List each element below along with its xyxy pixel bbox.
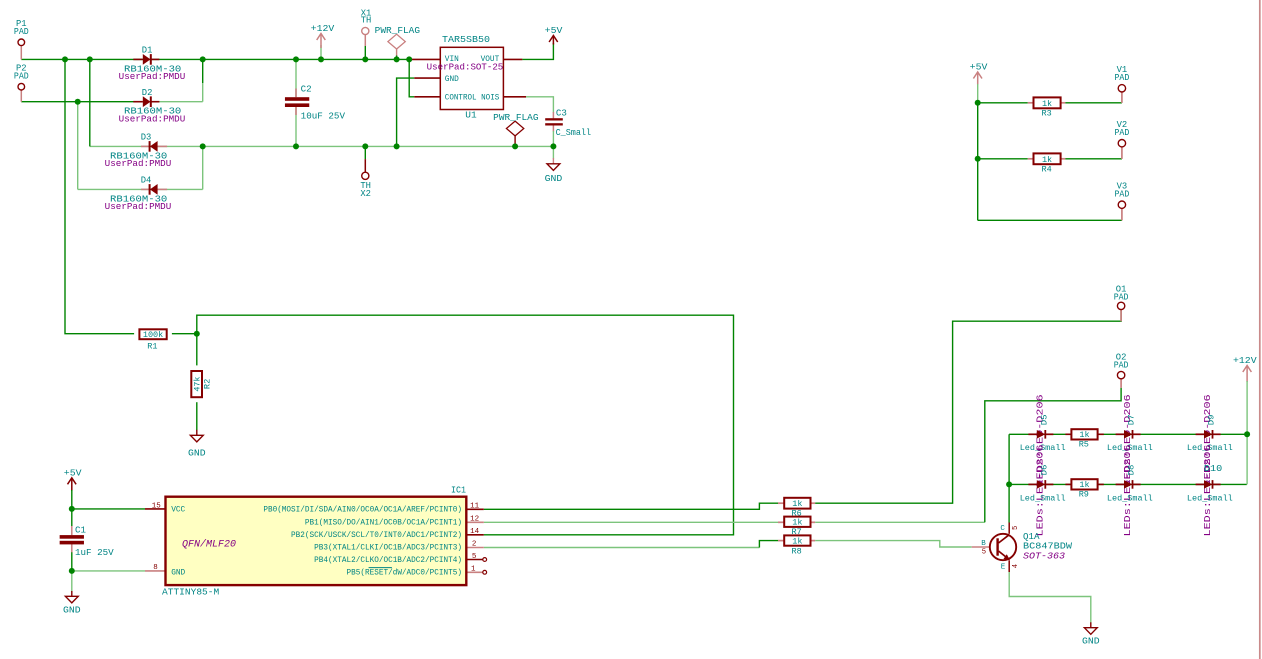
svg-text:14: 14 <box>470 528 480 536</box>
resistor R8 1k <box>784 535 810 556</box>
wire R1 junction up/over to PB2 pin 14 <box>197 315 734 535</box>
svg-text:PB2(SCK/USCK/SCL/T0/INT0/ADC1/: PB2(SCK/USCK/SCL/T0/INT0/ADC1/PCINT2) <box>291 532 462 540</box>
junction G1 <box>1006 481 1012 487</box>
diode D2 RB160M-30 <box>119 88 186 125</box>
capacitor C3 C_Small <box>545 109 591 138</box>
svg-text:D5: D5 <box>1039 415 1049 426</box>
svg-text:Led_Small: Led_Small <box>1020 493 1066 503</box>
wire VCC junction to IC pin 15 <box>72 508 145 510</box>
svg-text:R9: R9 <box>1079 489 1089 499</box>
wire U1 GND pin to GND rail <box>397 78 415 146</box>
svg-text:PAD: PAD <box>1115 128 1130 138</box>
diode D1 RB160M-30 <box>119 46 186 83</box>
power +5V at IC <box>71 478 73 491</box>
svg-text:PWR_FLAG: PWR_FLAG <box>493 113 538 123</box>
pad V1 (V1) <box>1115 65 1130 103</box>
svg-text:1k: 1k <box>792 518 802 528</box>
svg-text:R1: R1 <box>147 341 157 351</box>
svg-text:GND: GND <box>545 174 563 184</box>
svg-text:R5: R5 <box>1079 440 1089 450</box>
junction B1 <box>75 99 81 105</box>
svg-text:R8: R8 <box>792 547 802 557</box>
svg-text:PAD: PAD <box>1115 190 1130 200</box>
wire C1 bottom <box>71 544 73 553</box>
collector stub Q1 <box>1008 523 1010 534</box>
wire R6 to O1 pad <box>815 309 1121 503</box>
wire R3 to V1 pad <box>1065 102 1122 104</box>
LED D6 Led_Small <box>1028 480 1053 489</box>
wire PB3 jog up to R8 <box>759 541 778 548</box>
wire PB2 pin 14 stub <box>466 534 484 536</box>
junction D1 <box>194 331 200 337</box>
wire CONTROL NOIS pin stub <box>414 96 440 98</box>
svg-text:C: C <box>1000 525 1005 533</box>
wire R2 to GND <box>196 402 198 430</box>
diode D4 RB160M-30 <box>105 176 172 213</box>
svg-text:PAD: PAD <box>1114 293 1129 303</box>
pin 12 stub (pale) <box>466 521 484 523</box>
wire R1 junction down to R2 <box>196 334 198 366</box>
LED D5 Led_Small <box>1028 430 1053 439</box>
wire VIN pin stub U1 <box>411 58 441 60</box>
junction A1 <box>62 56 68 62</box>
wire C3 top stub <box>552 112 554 118</box>
svg-text:D2: D2 <box>142 88 153 98</box>
wire PWR_FLAG stem <box>396 49 398 57</box>
pin numbers IC1 <box>152 502 480 573</box>
svg-text:PB4(XTAL2/CLKO/OC1B/ADC2/PCINT: PB4(XTAL2/CLKO/OC1B/ADC2/PCINT4) <box>314 557 462 565</box>
svg-text:UserPad:PMDU: UserPad:PMDU <box>119 72 186 82</box>
wire +5V stem pale <box>977 84 979 103</box>
svg-text:B: B <box>981 540 986 548</box>
wire C1 top <box>71 509 73 527</box>
wire +12V row1 to row2 vertical (pale) <box>1246 434 1248 484</box>
svg-text:+5V: +5V <box>970 63 988 73</box>
LED D8 Led_Small <box>1116 480 1141 489</box>
resistor R6 1k <box>784 498 810 519</box>
svg-text:PWR_FLAG: PWR_FLAG <box>375 26 420 36</box>
wire +5V down distribution x=977.7 <box>977 103 979 221</box>
svg-text:Led_Small: Led_Small <box>1107 493 1153 503</box>
wire R4 to V2 pad <box>1065 158 1122 160</box>
junction C1 <box>200 143 206 149</box>
wire P2 row right part (pale) <box>141 101 203 103</box>
wire V1 stub <box>1121 92 1123 103</box>
wire P1 node to R1 vertical x=65 <box>65 59 134 333</box>
power flag PWR_FLAG 2 <box>506 121 523 136</box>
wire GND stem right <box>1090 622 1092 628</box>
svg-text:R4: R4 <box>1042 165 1052 175</box>
svg-text:D1: D1 <box>142 46 153 56</box>
svg-text:1: 1 <box>471 566 476 574</box>
wire CONTROL NOIS left vertical from VIN rail <box>409 59 414 96</box>
svg-text:C1: C1 <box>75 526 86 536</box>
svg-text:+5V: +5V <box>545 26 563 36</box>
LED D7 Led_Small <box>1116 430 1141 439</box>
svg-text:5: 5 <box>1012 526 1020 530</box>
svg-text:GND: GND <box>188 448 206 458</box>
svg-text:UserPad:PMDU: UserPad:PMDU <box>105 202 172 212</box>
junction E1 <box>975 100 981 106</box>
svg-text:D7: D7 <box>1127 415 1137 426</box>
junction A3 <box>200 56 206 62</box>
wire GND rail y=146.4 (pale) <box>90 145 554 147</box>
svg-text:C_Small: C_Small <box>556 128 592 138</box>
wire +5V junction to R3 <box>978 102 1028 104</box>
svg-text:D9: D9 <box>1207 415 1217 426</box>
transistor Q1A BC847BDW <box>981 525 1072 571</box>
junction C6 <box>550 143 556 149</box>
svg-text:C3: C3 <box>556 109 567 119</box>
ground symbol near C3 <box>547 164 560 171</box>
svg-text:Led_Small: Led_Small <box>1187 493 1233 503</box>
wire V3 stub <box>1121 208 1123 220</box>
junction E2 <box>975 156 981 162</box>
power +5V at regulator output <box>552 36 554 45</box>
svg-text:LEDs:LED-D206: LEDs:LED-D206 <box>1123 445 1133 537</box>
pin 5 stub with no-connect circle <box>466 559 483 561</box>
wire R7 right (pale) <box>815 521 985 523</box>
junction A4 <box>293 56 299 62</box>
wire PB1 pin 12 to R7 (pale) <box>484 521 778 523</box>
svg-text:+5V: +5V <box>64 468 82 478</box>
svg-text:VIN: VIN <box>445 56 459 64</box>
pad O2 (O2) <box>1114 352 1129 387</box>
svg-text:5: 5 <box>472 553 477 561</box>
power flag PWR_FLAG 1 <box>388 34 405 49</box>
regulator U1 TAR5SB50 <box>427 35 504 120</box>
wire P2 row y=101.7 <box>21 101 141 103</box>
wire V3 row <box>978 219 1122 221</box>
svg-text:PB1(MISO/DO/AIN1/OC0B/OC1A/PCI: PB1(MISO/DO/AIN1/OC0B/OC1A/PCINT1) <box>305 520 462 528</box>
svg-text:4: 4 <box>1012 564 1020 568</box>
svg-text:+12V: +12V <box>1233 356 1257 366</box>
svg-text:Q1A: Q1A <box>1023 532 1040 542</box>
junction A8 <box>406 56 412 62</box>
wire R4 stubs <box>1028 158 1034 160</box>
wire C2 top stub <box>295 59 297 97</box>
pad V2 (V2) <box>1115 120 1130 159</box>
wire C3 bottom stub <box>552 125 554 131</box>
wire R6 stubs <box>778 502 784 504</box>
pin 8 stub GND (pale) <box>145 570 166 572</box>
wire +5V junction to R4 <box>978 158 1028 160</box>
wire O1 stub <box>1120 309 1122 321</box>
IC IC1 ATTINY85-M <box>162 485 466 597</box>
svg-text:D6: D6 <box>1039 465 1049 476</box>
svg-text:PB0(MOSI/DI/SDA/AIN0/OC0A/OC1A: PB0(MOSI/DI/SDA/AIN0/OC0A/OC1A/AREF/PCIN… <box>263 507 462 515</box>
svg-text:10uF 25V: 10uF 25V <box>301 112 346 122</box>
svg-text:12: 12 <box>470 516 479 524</box>
wire GND stem left <box>71 571 73 592</box>
LED D10 Led_Small <box>1196 480 1221 489</box>
wire GND junction to IC pin 8 (pale) <box>72 570 145 572</box>
junction C2 <box>293 143 299 149</box>
transistor base stub (pale) <box>972 546 990 548</box>
power symbol +12V top <box>311 24 335 40</box>
svg-text:TAR5SB50: TAR5SB50 <box>442 35 490 45</box>
svg-text:LEDs:LED-D206: LEDs:LED-D206 <box>1203 445 1213 537</box>
svg-text:PAD: PAD <box>14 27 29 37</box>
wire PWR_FLAG2 stem <box>514 136 516 147</box>
wire R1 to R2 junction <box>172 333 197 335</box>
svg-text:2: 2 <box>472 541 477 549</box>
svg-text:D8: D8 <box>1127 465 1137 476</box>
emitter stub Q1 <box>1008 560 1010 572</box>
wire CONTROL NOIS right stub <box>503 96 526 98</box>
junction C3 <box>362 143 368 149</box>
wire PB3 pin 2 to R8 (pale) <box>484 547 760 549</box>
svg-text:GND: GND <box>63 606 81 616</box>
junction A5 <box>318 56 324 62</box>
pin 2 stub (pale) <box>466 547 484 549</box>
svg-text:D4: D4 <box>141 176 152 186</box>
svg-text:GND: GND <box>171 570 185 578</box>
resistor R7 1k <box>784 517 810 537</box>
junction A7 <box>394 56 400 62</box>
svg-text:8: 8 <box>153 564 158 572</box>
svg-text:PB3(XTAL1/CLKI/OC1B/ADC3/PCINT: PB3(XTAL1/CLKI/OC1B/ADC3/PCINT3) <box>314 545 462 553</box>
ground symbol right <box>1084 628 1097 635</box>
svg-text:CONTROL NOIS: CONTROL NOIS <box>445 95 500 103</box>
svg-text:VOUT: VOUT <box>481 56 500 64</box>
svg-text:VCC: VCC <box>171 506 185 514</box>
wire R8 stubs <box>778 540 784 542</box>
wire R7 stubs <box>778 521 784 523</box>
ground symbol below R2 <box>190 435 203 442</box>
wire D3/D4 anode join vertical x=202.7 (pale) <box>202 146 204 189</box>
wire C3 to GND rail (pale) <box>552 131 554 146</box>
wire O2 stub <box>1120 378 1122 388</box>
svg-text:X2: X2 <box>360 189 371 199</box>
power +5V right <box>977 72 979 85</box>
wire X2 stub <box>364 146 366 159</box>
wire emitter to GND (pale) <box>1009 572 1091 623</box>
svg-text:1uF 25V: 1uF 25V <box>75 548 114 558</box>
junction G2 <box>1244 431 1250 437</box>
svg-text:QFN/MLF20: QFN/MLF20 <box>182 539 236 551</box>
pin 1 stub with no-connect circle (pale) <box>466 571 483 573</box>
ground symbol left <box>65 596 78 603</box>
svg-text:U1: U1 <box>465 110 476 120</box>
wire LED left vertical to collector <box>1008 434 1010 522</box>
wire R5 pin stubs <box>1065 433 1071 435</box>
junction A2 <box>87 56 93 62</box>
svg-text:5: 5 <box>982 549 986 557</box>
pad P2 (P2) <box>14 64 29 102</box>
svg-text:+12V: +12V <box>311 24 335 34</box>
svg-text:UserPad:PMDU: UserPad:PMDU <box>105 159 172 169</box>
wire D1/D2 cathode join vertical x=202.7 <box>202 59 204 83</box>
junction C5 <box>512 143 518 149</box>
svg-text:ATTINY85-M: ATTINY85-M <box>162 586 219 597</box>
wire +5V to VCC junction <box>71 490 73 509</box>
svg-text:1k: 1k <box>1042 99 1052 109</box>
capacitor C1 1uF 25V <box>60 526 115 559</box>
svg-text:PAD: PAD <box>1115 73 1130 83</box>
svg-text:C2: C2 <box>301 84 312 94</box>
wire X1 stub <box>364 35 366 46</box>
svg-text:R3: R3 <box>1042 109 1052 119</box>
wire C2 bottom stub <box>295 107 297 147</box>
sheet border right edge <box>1259 0 1261 659</box>
svg-text:SOT-363: SOT-363 <box>1023 551 1066 561</box>
pad O1 (O1) <box>1114 285 1129 322</box>
svg-text:E: E <box>1001 563 1006 571</box>
wire R8 to transistor base (pale) <box>815 541 972 547</box>
resistor R1 100k <box>139 329 166 351</box>
resistor R2 47k <box>191 371 212 397</box>
pad X2 (TH) <box>360 172 371 199</box>
svg-text:LEDs:LED-D206: LEDs:LED-D206 <box>1036 445 1046 537</box>
junction A6 <box>362 56 368 62</box>
wire U1 GND pin stub <box>414 77 440 79</box>
diode D3 RB160M-30 <box>105 133 172 170</box>
resistor R4 1k <box>1034 153 1061 174</box>
pad V3 (V3) <box>1115 182 1130 221</box>
svg-text:BC847BDW: BC847BDW <box>1023 542 1073 552</box>
svg-text:1k: 1k <box>1042 155 1052 165</box>
wire VOUT to +5V <box>522 43 553 59</box>
wire V2 stub <box>1121 146 1123 158</box>
resistor R9 1k <box>1071 479 1097 499</box>
LED D9 Led_Small <box>1196 430 1221 439</box>
wire LED row2 y=484.4 <box>1009 483 1247 485</box>
svg-text:PAD: PAD <box>1114 360 1129 370</box>
wire VOUT pin stub <box>503 58 522 60</box>
svg-text:R2: R2 <box>203 379 213 389</box>
svg-text:47k: 47k <box>194 376 203 391</box>
junction C4 <box>394 143 400 149</box>
svg-text:100k: 100k <box>143 330 163 340</box>
svg-text:GND: GND <box>1082 636 1100 646</box>
wire R3 stubs <box>1028 102 1034 104</box>
pin 15 stub VCC <box>145 508 166 510</box>
wire D4 cathode vertical x=77.7 (pale) <box>77 102 79 190</box>
svg-text:TH: TH <box>361 16 372 26</box>
wire LED row1 y=434.3 <box>1009 433 1247 435</box>
svg-text:11: 11 <box>470 503 480 511</box>
wire R9 pin stubs <box>1065 483 1071 485</box>
wire D3 cathode vertical x=89.8 <box>89 59 91 146</box>
pad P1 (P1) <box>14 19 29 59</box>
wire GND stem below C3 (pale) <box>552 146 554 158</box>
svg-text:UserPad:PMDU: UserPad:PMDU <box>119 114 186 124</box>
power +12V right <box>1246 366 1248 382</box>
pad X1 (TH) <box>361 8 372 34</box>
wire CONTROL NOIS to C3 (pale) <box>526 97 553 113</box>
pin 11 stub <box>466 508 484 510</box>
resistor R3 1k <box>1034 97 1061 118</box>
svg-text:D3: D3 <box>141 133 152 143</box>
svg-text:D10: D10 <box>1204 464 1222 474</box>
wire O2 to R7 vertical <box>985 388 1121 523</box>
junction F1 <box>69 506 75 512</box>
svg-text:PB5(RESET/dW/ADC0/PCINT5): PB5(RESET/dW/ADC0/PCINT5) <box>347 570 463 578</box>
wire P1/VIN rail y=59.4 <box>21 58 411 60</box>
capacitor C2 10uF 25V <box>285 84 346 121</box>
svg-text:1k: 1k <box>792 536 802 546</box>
svg-text:IC1: IC1 <box>451 485 466 495</box>
junction F2 <box>69 568 75 574</box>
wire PB0 pin 11 to R6 <box>484 503 778 509</box>
wire +12V down to LED row1 (pale) <box>1246 381 1248 434</box>
resistor R5 1k <box>1071 429 1097 449</box>
svg-text:15: 15 <box>152 502 162 510</box>
wire D4 row y=189.4 (pale) <box>78 188 203 190</box>
svg-text:GND: GND <box>445 76 459 84</box>
wire +12V power stem <box>320 45 322 59</box>
svg-text:PAD: PAD <box>14 72 29 82</box>
